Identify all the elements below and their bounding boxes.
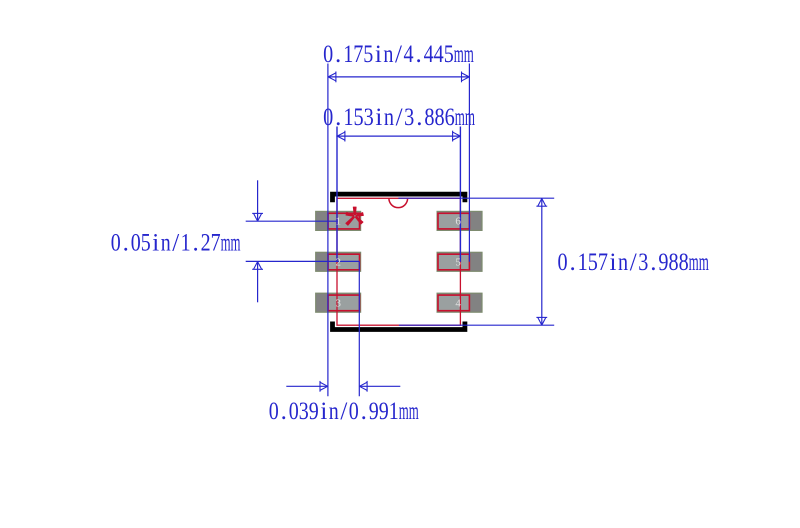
- svg-text:5: 5: [141, 229, 151, 256]
- svg-text:6: 6: [455, 216, 461, 228]
- svg-text:1: 1: [343, 41, 353, 68]
- arrow left-dim up: [254, 262, 262, 270]
- arrow bottom-dim pointing left: [359, 382, 367, 390]
- svg-text:m: m: [464, 41, 474, 68]
- svg-text:0: 0: [323, 41, 333, 68]
- left dim vertical upper segment: [257, 180, 259, 221]
- pad 2 (gray land): [316, 252, 361, 271]
- svg-text:3: 3: [335, 297, 341, 309]
- svg-text:/: /: [172, 229, 179, 256]
- svg-text:i: i: [375, 104, 382, 131]
- svg-text:n: n: [161, 229, 171, 256]
- pad 1 copper outline (red): [328, 213, 359, 229]
- arrow 0.153 right: [453, 132, 461, 140]
- pad 6 copper outline (red): [438, 213, 469, 229]
- right dim top extension (y=198.2): [398, 197, 554, 199]
- svg-text:.: .: [335, 104, 341, 131]
- left dim vertical lower segment: [257, 261, 259, 302]
- svg-text:0: 0: [131, 229, 141, 256]
- pad 3 copper outline (red): [328, 295, 359, 311]
- pad 4 copper outline (red): [438, 295, 469, 311]
- extension line inner-left (x=336.4): [336, 127, 338, 262]
- svg-text:m: m: [409, 398, 419, 425]
- pad 3 (gray land): [316, 293, 361, 312]
- svg-text:1: 1: [389, 398, 399, 425]
- svg-text:i: i: [320, 398, 327, 425]
- right dim bottom extension (y=325.2): [399, 324, 554, 326]
- svg-text:.: .: [281, 398, 287, 425]
- dimension line 0.153in (horizontal): [336, 135, 460, 137]
- svg-text:m: m: [689, 249, 699, 276]
- svg-text:.: .: [415, 41, 421, 68]
- blue dimension graphics: [246, 64, 555, 397]
- svg-text:0: 0: [558, 249, 568, 276]
- svg-text:/: /: [630, 249, 637, 276]
- dimension text 0.157in/3.988mm: [558, 249, 710, 276]
- open arrowheads (blue outline): [252, 72, 547, 392]
- arrow bottom-dim pointing right: [320, 382, 328, 390]
- svg-text:5: 5: [444, 41, 454, 68]
- svg-text:4: 4: [404, 41, 414, 68]
- svg-text:.: .: [123, 229, 129, 256]
- arrow right-dim up: [538, 199, 546, 207]
- dimension text 0.05in/1.27mm: [111, 229, 241, 256]
- svg-text:.: .: [335, 41, 341, 68]
- pad 1 (gray land): [316, 211, 361, 230]
- svg-text:/: /: [395, 41, 402, 68]
- extension line outer-left (x=327.9): [327, 64, 329, 397]
- svg-text:m: m: [699, 249, 709, 276]
- svg-text:.: .: [193, 229, 199, 256]
- extension line pad-length right (x=359.3): [358, 261, 360, 396]
- bottom dim right tail: [359, 385, 400, 387]
- svg-text:5: 5: [363, 41, 373, 68]
- svg-text:3: 3: [638, 249, 648, 276]
- arrow left-dim down: [254, 213, 262, 221]
- svg-text:.: .: [570, 249, 576, 276]
- svg-text:5: 5: [353, 104, 363, 131]
- svg-text:9: 9: [658, 249, 668, 276]
- pad 5 copper outline (red): [438, 254, 469, 270]
- svg-text:n: n: [383, 41, 393, 68]
- svg-text:3: 3: [404, 104, 414, 131]
- svg-text:1: 1: [578, 249, 588, 276]
- svg-text:.: .: [416, 104, 422, 131]
- arrow 0.153 left: [337, 132, 345, 140]
- bottom dim left tail: [286, 385, 327, 387]
- svg-text:/: /: [340, 398, 347, 425]
- svg-text:0: 0: [111, 229, 121, 256]
- svg-text:m: m: [399, 398, 409, 425]
- dimension text 0.175in/4.445mm: [323, 41, 474, 68]
- dimension text 0.153in/3.886mm: [323, 104, 475, 131]
- svg-text:n: n: [329, 398, 339, 425]
- svg-text:8: 8: [435, 104, 445, 131]
- svg-text:i: i: [152, 229, 159, 256]
- svg-text:1: 1: [335, 216, 341, 228]
- svg-text:.: .: [650, 249, 656, 276]
- svg-text:3: 3: [364, 104, 374, 131]
- svg-text:3: 3: [299, 398, 309, 425]
- left dim leader lower (y=261.4): [246, 260, 360, 262]
- pad 4 (gray land): [437, 293, 482, 312]
- svg-text:6: 6: [445, 104, 455, 131]
- svg-text:i: i: [610, 249, 617, 276]
- svg-text:m: m: [231, 229, 241, 256]
- svg-text:7: 7: [598, 249, 608, 276]
- svg-text:4: 4: [424, 41, 434, 68]
- svg-text:/: /: [396, 104, 403, 131]
- arrow 0.175 right: [462, 73, 470, 81]
- pad 5 (gray land): [437, 252, 482, 271]
- svg-text:2: 2: [335, 257, 341, 269]
- svg-text:4: 4: [434, 41, 444, 68]
- arrow right-dim down: [538, 317, 546, 325]
- pin 1 marker star (red asterisk): [346, 207, 364, 225]
- svg-text:9: 9: [309, 398, 319, 425]
- right dim vertical line: [541, 198, 543, 325]
- svg-text:0: 0: [289, 398, 299, 425]
- svg-text:0: 0: [349, 398, 359, 425]
- svg-text:5: 5: [588, 249, 598, 276]
- dimension line 0.175in (horizontal): [328, 76, 470, 78]
- arrow 0.175 left: [328, 73, 336, 81]
- svg-text:8: 8: [424, 104, 434, 131]
- svg-text:1: 1: [343, 104, 353, 131]
- svg-text:9: 9: [369, 398, 379, 425]
- extension line inner-right (x=460.7): [459, 127, 461, 262]
- svg-text:0: 0: [323, 104, 333, 131]
- bottom assembly bar (thick black): [333, 324, 465, 330]
- left dim leader upper (y=221.2): [246, 220, 339, 222]
- svg-text:4: 4: [455, 297, 461, 309]
- svg-text:m: m: [454, 41, 464, 68]
- svg-text:1: 1: [181, 229, 191, 256]
- svg-text:n: n: [618, 249, 628, 276]
- svg-text:5: 5: [455, 257, 461, 269]
- svg-text:i: i: [375, 41, 382, 68]
- pad 6 (gray land): [437, 211, 482, 230]
- top assembly bar (thick black): [333, 194, 465, 200]
- svg-text:9: 9: [379, 398, 389, 425]
- svg-text:.: .: [361, 398, 367, 425]
- svg-text:m: m: [455, 104, 465, 131]
- svg-text:0: 0: [269, 398, 279, 425]
- svg-text:n: n: [384, 104, 395, 131]
- pad 2 copper outline (red): [328, 254, 359, 270]
- svg-text:8: 8: [679, 249, 689, 276]
- svg-text:m: m: [465, 104, 475, 131]
- dimension text 0.039in/0.991mm: [269, 398, 419, 425]
- pin-1 end notch (red semicircle): [389, 198, 408, 207]
- svg-text:8: 8: [668, 249, 678, 276]
- svg-text:7: 7: [211, 229, 221, 256]
- svg-text:7: 7: [353, 41, 363, 68]
- svg-text:m: m: [221, 229, 231, 256]
- extension line outer-right (x=469.4): [468, 64, 470, 262]
- package body outline (red): [337, 198, 460, 325]
- svg-text:2: 2: [201, 229, 211, 256]
